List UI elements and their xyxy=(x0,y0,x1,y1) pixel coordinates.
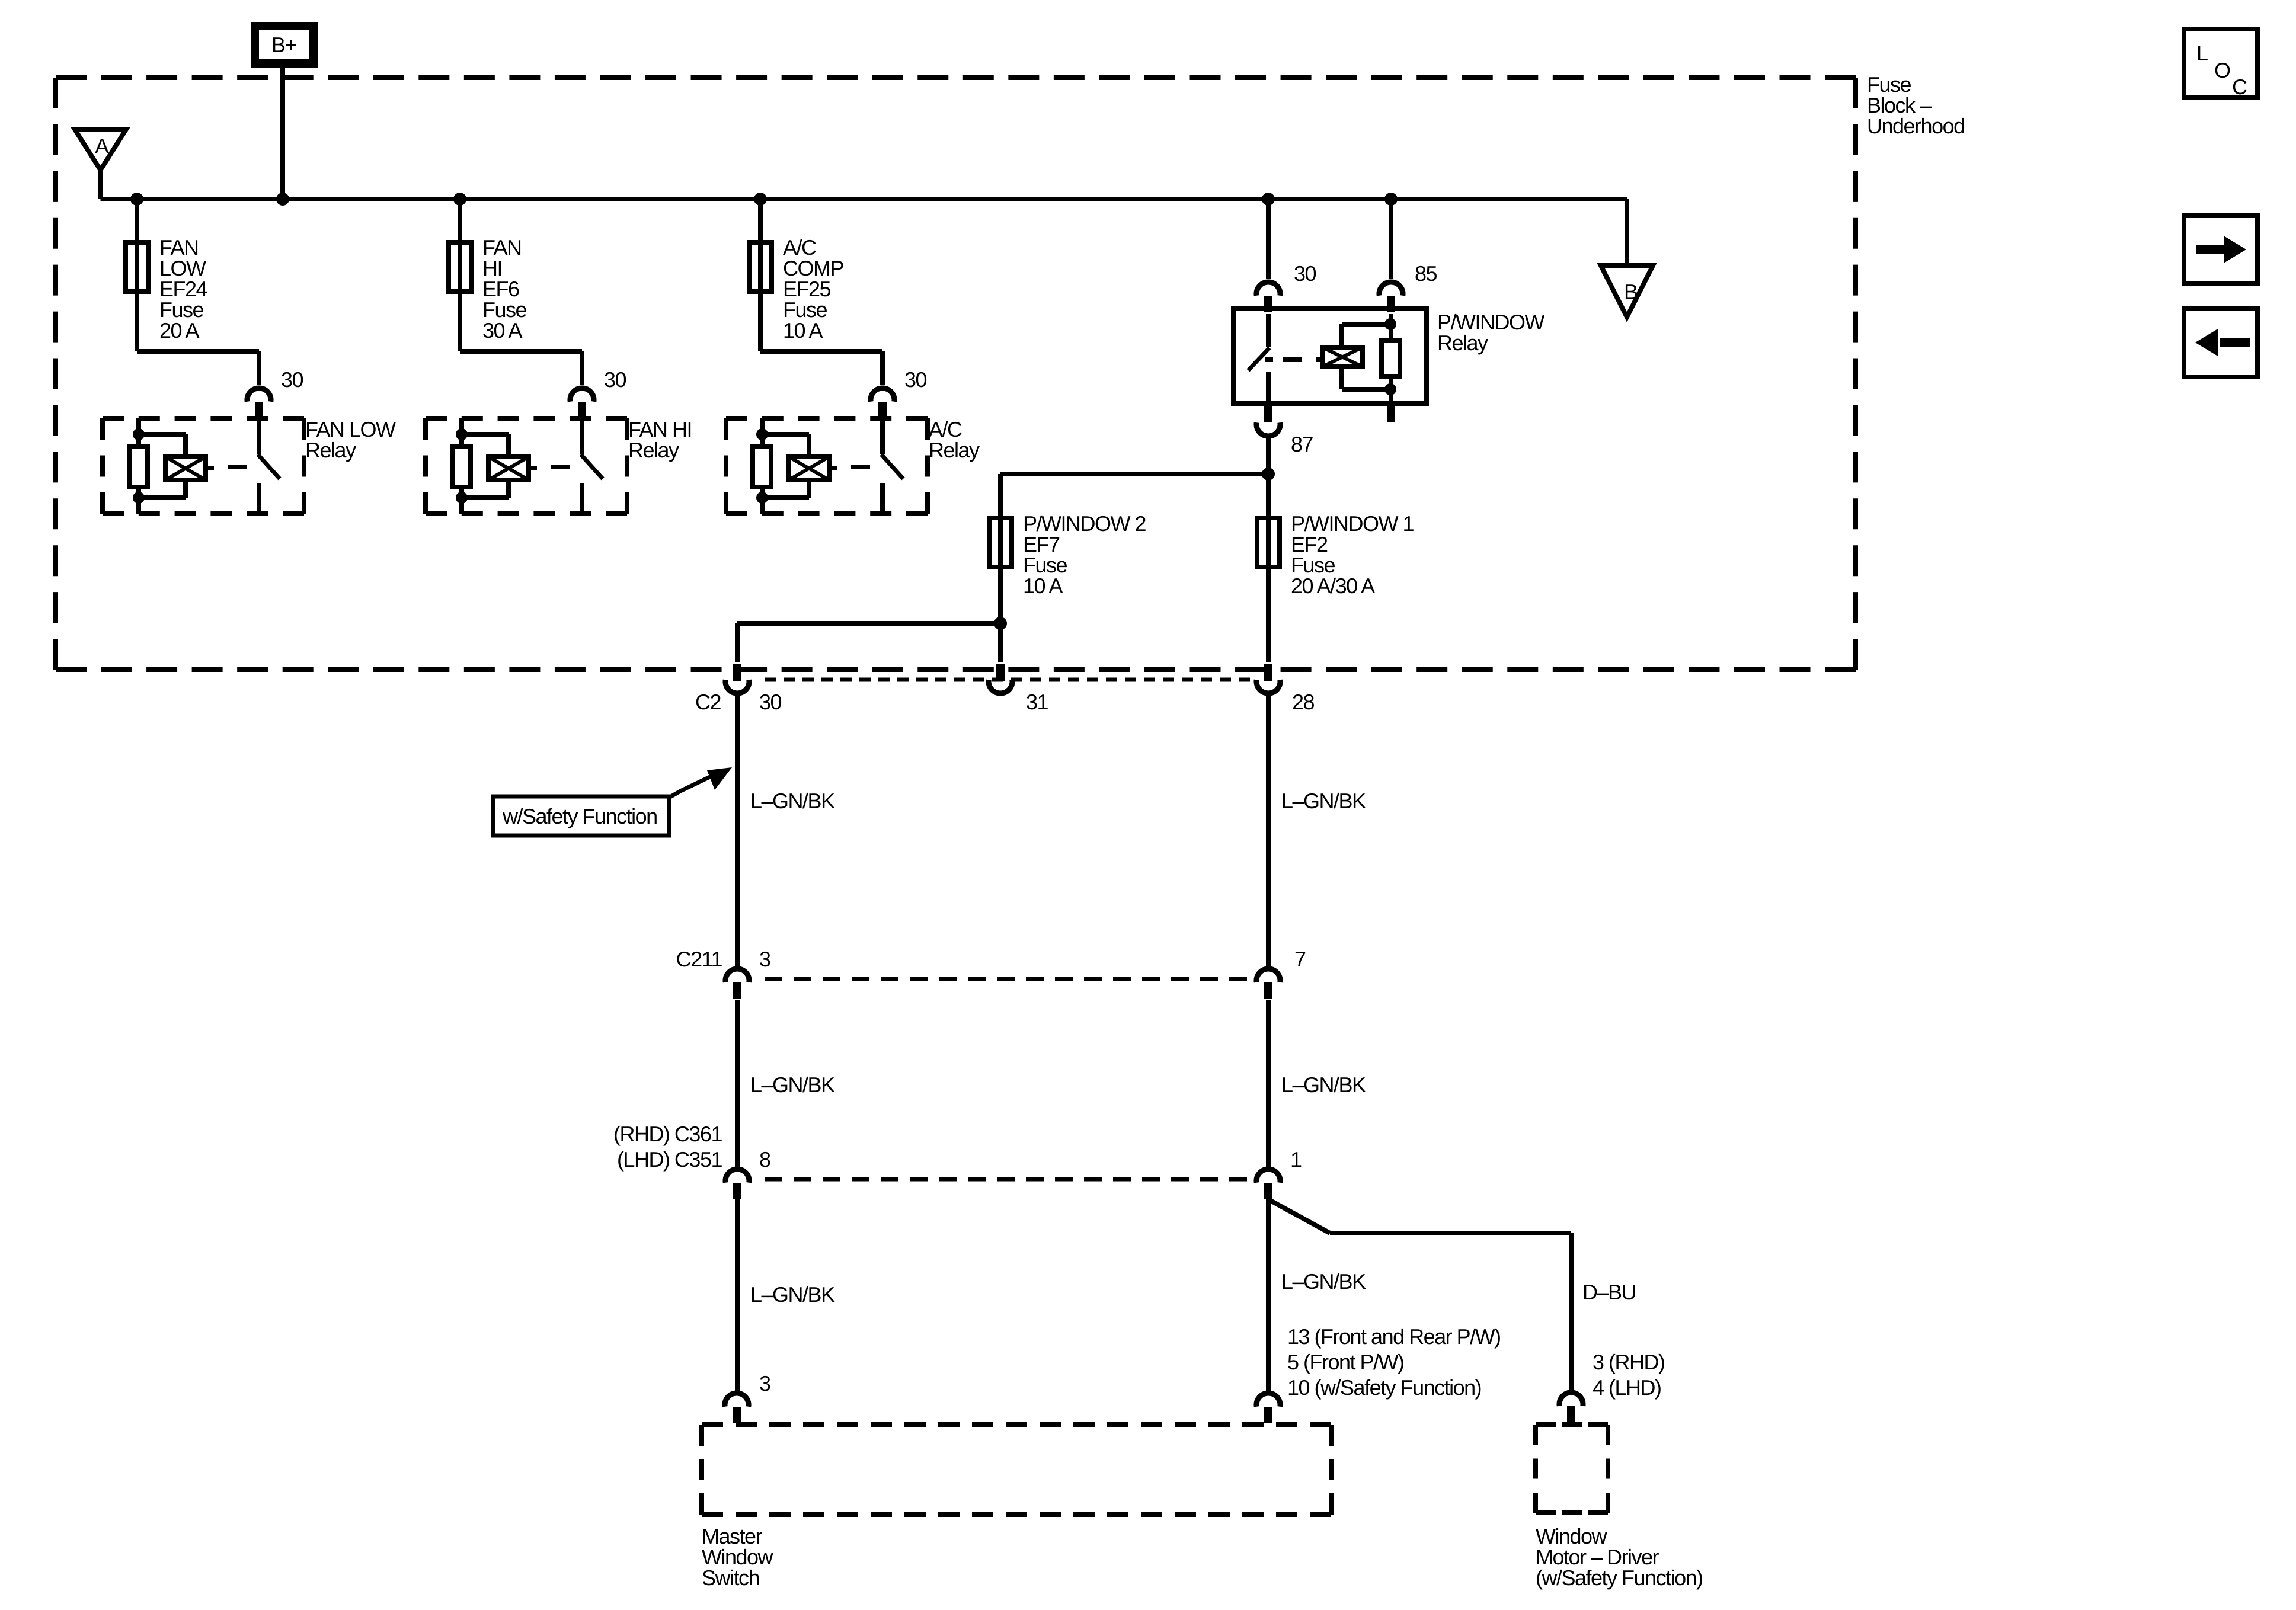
svg-text:Relay: Relay xyxy=(1437,331,1488,355)
svg-text:Underhood: Underhood xyxy=(1867,114,1965,138)
svg-text:L–GN/BK: L–GN/BK xyxy=(1281,1073,1366,1097)
svg-text:L–GN/BK: L–GN/BK xyxy=(1281,1269,1366,1294)
svg-text:(RHD) C361: (RHD) C361 xyxy=(613,1122,722,1146)
svg-text:30 A: 30 A xyxy=(482,318,523,343)
svg-text:20 A/30 A: 20 A/30 A xyxy=(1291,574,1375,598)
svg-text:30: 30 xyxy=(904,367,927,392)
svg-text:L–GN/BK: L–GN/BK xyxy=(750,1073,835,1097)
svg-text:w/Safety Function: w/Safety Function xyxy=(502,804,657,828)
svg-text:D–BU: D–BU xyxy=(1582,1280,1636,1304)
svg-text:87: 87 xyxy=(1291,432,1313,456)
svg-text:L–GN/BK: L–GN/BK xyxy=(750,1282,835,1307)
svg-text:28: 28 xyxy=(1292,690,1315,714)
svg-text:10 A: 10 A xyxy=(1023,574,1063,598)
svg-text:31: 31 xyxy=(1026,690,1048,714)
svg-text:7: 7 xyxy=(1294,947,1306,971)
svg-text:10 A: 10 A xyxy=(783,318,823,343)
svg-text:Switch: Switch xyxy=(702,1566,759,1590)
svg-text:B+: B+ xyxy=(271,33,297,57)
svg-text:L: L xyxy=(2196,41,2208,65)
svg-text:30: 30 xyxy=(281,367,303,392)
svg-text:C211: C211 xyxy=(676,947,722,971)
svg-text:O: O xyxy=(2214,58,2230,82)
svg-text:C: C xyxy=(2232,75,2247,99)
svg-text:3 (RHD): 3 (RHD) xyxy=(1593,1350,1665,1374)
svg-text:20 A: 20 A xyxy=(159,318,200,343)
svg-text:30: 30 xyxy=(1294,261,1316,286)
svg-text:8: 8 xyxy=(759,1147,770,1172)
svg-text:L–GN/BK: L–GN/BK xyxy=(1281,789,1366,813)
svg-text:85: 85 xyxy=(1415,261,1437,286)
svg-text:(LHD) C351: (LHD) C351 xyxy=(617,1147,722,1172)
svg-text:13 (Front and Rear P/W): 13 (Front and Rear P/W) xyxy=(1287,1324,1501,1349)
svg-text:Relay: Relay xyxy=(929,438,980,462)
svg-text:3: 3 xyxy=(759,1371,770,1395)
svg-text:3: 3 xyxy=(759,947,770,971)
svg-text:1: 1 xyxy=(1290,1147,1302,1172)
svg-text:(w/Safety Function): (w/Safety Function) xyxy=(1536,1566,1703,1590)
svg-text:C2: C2 xyxy=(695,690,721,714)
svg-text:B: B xyxy=(1624,280,1638,304)
svg-text:L–GN/BK: L–GN/BK xyxy=(750,789,835,813)
svg-text:10 (w/Safety Function): 10 (w/Safety Function) xyxy=(1287,1375,1481,1400)
svg-text:4 (LHD): 4 (LHD) xyxy=(1593,1375,1661,1400)
svg-text:5 (Front P/W): 5 (Front P/W) xyxy=(1287,1350,1404,1374)
svg-text:30: 30 xyxy=(604,367,626,392)
svg-text:Relay: Relay xyxy=(305,438,356,462)
svg-text:30: 30 xyxy=(759,690,782,714)
svg-text:A: A xyxy=(95,134,109,158)
svg-text:Relay: Relay xyxy=(628,438,679,462)
